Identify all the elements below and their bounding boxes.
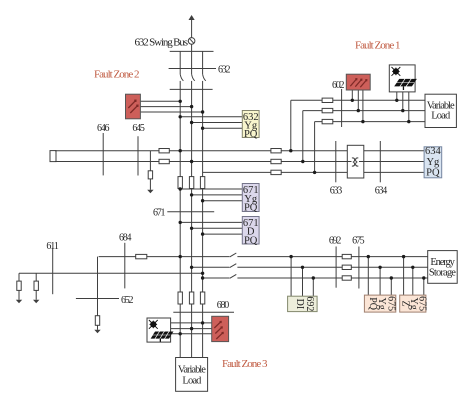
load 611 drop 2 — [35, 273, 37, 281]
svg-text:675: 675 — [352, 235, 365, 246]
svg-text:Energy: Energy — [430, 257, 455, 268]
wire drop to 692DI box A — [290, 257, 292, 297]
node L3 riser — [313, 171, 316, 174]
bus 652 tick bar — [76, 298, 119, 300]
load 645 resistor — [148, 171, 152, 179]
PV unit top right — [389, 65, 417, 92]
sun icon — [392, 67, 401, 76]
bus bar top — [170, 50, 214, 52]
wire feeder phase A vertical — [179, 89, 181, 357]
load box 675 Yg PQ rotated — [364, 295, 396, 312]
bus 680 bar — [173, 311, 234, 313]
wire 692 line 2 — [192, 266, 428, 268]
svg-text:684: 684 — [119, 232, 132, 243]
svg-text:632: 632 — [218, 64, 231, 75]
wire L1 to 634 box — [291, 150, 424, 152]
transformer T1 633-634 — [347, 145, 364, 178]
fuse L1 right — [271, 149, 281, 153]
bus 645 tick — [137, 136, 139, 175]
node 692-3 — [201, 276, 204, 279]
load 645 drop wire — [149, 151, 151, 171]
wire fault1 phase C — [315, 121, 425, 123]
load 652 resistor — [95, 316, 99, 326]
node fault3 top — [201, 321, 204, 324]
swing bus source G1 — [188, 38, 195, 45]
svg-text:PQ: PQ — [244, 129, 258, 140]
svg-text:Load: Load — [431, 111, 451, 122]
wire to 632 load phase A — [180, 116, 242, 118]
wire phase C stub — [202, 51, 204, 68]
fuse 692 A — [342, 254, 351, 258]
wire 611 res1 to ground — [18, 290, 20, 299]
node 675Z drop B — [411, 266, 414, 269]
node 675PQ drop B — [378, 266, 381, 269]
fuse fault1 A — [322, 98, 333, 102]
node L1 riser — [289, 149, 292, 152]
wire PV1 drop B — [402, 92, 404, 111]
wire feeder phase C vertical — [202, 89, 204, 357]
svg-text:633: 633 — [330, 185, 343, 196]
load box 675 Yg Z rotated — [400, 295, 428, 312]
fault box 680 zone 3 — [212, 316, 229, 341]
wire 611 res2 to ground — [35, 290, 37, 299]
wire drop to 675PQ box C — [390, 278, 392, 295]
wire to 671Yg load A — [180, 188, 242, 190]
wire fault602 drop B — [357, 90, 359, 111]
node 671Yg-C — [201, 199, 204, 202]
fuse 692 B — [342, 265, 351, 269]
wire drop to 675PQ box A — [367, 257, 369, 296]
switch line 3 — [229, 274, 237, 280]
bus 602 tick — [341, 89, 343, 127]
wire fault3 phase top — [171, 322, 212, 324]
node 632load-C — [201, 127, 204, 130]
svg-text:680: 680 — [217, 300, 230, 311]
wire fault602 drop A — [351, 90, 353, 100]
wire drop to 692DI box B — [302, 267, 304, 296]
wire to 671D load B — [192, 227, 243, 229]
bus 632 bar — [169, 68, 216, 70]
load 611 resistor 1 — [17, 281, 21, 290]
svg-text:611: 611 — [46, 241, 59, 252]
svg-text:646: 646 — [97, 123, 110, 134]
wire source to bus — [191, 44, 193, 51]
wire 684 to 652 drop — [97, 257, 99, 316]
svg-text:602: 602 — [332, 80, 345, 91]
svg-text:634: 634 — [375, 185, 388, 196]
node 632load-B — [190, 121, 193, 124]
wire phase B stub — [191, 51, 193, 68]
node fault602-B — [357, 109, 360, 112]
energy storage box — [428, 251, 458, 284]
variable load box bottom — [176, 358, 208, 392]
wire 652 res to ground — [97, 325, 99, 330]
load box 671 D PQ — [242, 217, 259, 247]
wire fault2 phase A — [140, 100, 180, 102]
node 671D-B — [190, 227, 193, 230]
node L1-A — [179, 149, 182, 152]
node 675Z drop A — [402, 255, 405, 258]
panel icon — [394, 79, 417, 90]
breaker SW-C — [203, 69, 206, 90]
wire drop to 692DI box C — [312, 278, 314, 296]
svg-text:671: 671 — [153, 207, 166, 218]
svg-text:Fault Zone 2: Fault Zone 2 — [94, 68, 140, 80]
bus 675 tick — [358, 247, 360, 289]
svg-text:PQ: PQ — [244, 235, 258, 246]
node fault602-A — [351, 99, 354, 102]
node PV1-B — [401, 109, 404, 112]
wire 692 line 3 — [203, 277, 428, 279]
fuse feeder A lower — [178, 292, 182, 304]
node fault3 mid — [190, 327, 193, 330]
load box 632 Yg PQ — [242, 111, 259, 141]
fuse fault1 C — [322, 119, 333, 123]
node 671Yg-A — [179, 187, 182, 190]
wire drop to 675Z box B — [412, 267, 414, 295]
fuse feeder C lower — [200, 292, 204, 304]
wire fault3 phase mid — [171, 328, 212, 330]
load 611 resistor 2 — [34, 281, 38, 290]
wire line L2 — [55, 161, 303, 163]
wire fault602 drop C — [362, 90, 364, 122]
wire fault3 phase bot — [171, 333, 212, 335]
wire fault1 phase A — [291, 99, 425, 101]
fuse L3 right — [271, 170, 281, 174]
svg-text:DI: DI — [294, 299, 305, 310]
load box 692 DI rotated — [288, 296, 318, 311]
breaker SW-B — [192, 69, 195, 90]
svg-text:692: 692 — [304, 296, 315, 311]
fault box 602 zone 1 — [346, 74, 370, 90]
source arrow — [189, 15, 195, 38]
svg-text:Load: Load — [182, 375, 202, 386]
wire fault2 phase C — [140, 111, 202, 113]
sun icon — [149, 320, 158, 329]
node 675PQ drop C — [390, 276, 393, 279]
svg-text:Fault Zone 1: Fault Zone 1 — [355, 39, 401, 51]
fuse L2 left — [159, 159, 169, 163]
wire 684 line A — [99, 256, 428, 258]
wire riser to fault1 phase A — [290, 100, 292, 150]
wire fault2 phase B — [140, 106, 191, 108]
svg-text:Yg: Yg — [426, 157, 440, 168]
ground 652 — [94, 330, 100, 334]
node fault2-A — [179, 100, 182, 103]
node fault2-B — [190, 105, 193, 108]
svg-text:PQ: PQ — [426, 168, 440, 179]
node 684A — [179, 255, 182, 258]
bus 634 tick — [379, 141, 381, 182]
wire PV1 drop A — [396, 92, 398, 100]
ground 611-2 — [33, 300, 39, 304]
svg-text:Storage: Storage — [429, 267, 456, 278]
bus 684 tick — [124, 243, 126, 289]
wire to 671Yg load C — [203, 200, 243, 202]
node fault2-C — [201, 110, 204, 113]
wire to 671D load C — [203, 233, 243, 235]
wire riser to fault1 phase C — [314, 122, 316, 173]
bus 671 tick bar — [167, 211, 214, 213]
node 671D-A — [179, 221, 182, 224]
wire drop to 675Z box A — [403, 257, 405, 296]
panel icon — [151, 332, 174, 342]
wire L2 to 634 box — [303, 161, 424, 163]
wire L3 to 634 box — [315, 171, 425, 173]
wire feeder phase B vertical — [191, 89, 193, 357]
wire line L3 — [203, 171, 315, 173]
bus 633 tick — [335, 141, 337, 182]
fuse 684 line — [136, 254, 147, 258]
svg-text:Variable: Variable — [178, 365, 206, 376]
node 671D-C — [201, 232, 204, 235]
node DI drop A — [289, 255, 292, 258]
bus 611 tick — [52, 248, 54, 294]
wire to 632 load phase B — [192, 122, 243, 124]
svg-text:PQ: PQ — [367, 297, 378, 311]
wire riser to fault1 phase B — [302, 111, 304, 162]
fuse feeder B upper — [189, 177, 193, 189]
wire PV1 drop C — [408, 92, 410, 122]
load box 671 Yg PQ — [242, 184, 259, 214]
node 692-2 — [190, 266, 193, 269]
node fault3 bot — [179, 332, 182, 335]
variable load box top — [425, 94, 456, 127]
fuse feeder B lower — [189, 292, 193, 304]
ground 611-1 — [16, 300, 22, 304]
fuse 692 C — [342, 276, 351, 280]
node 632load-A — [179, 115, 182, 118]
svg-text:Z: Z — [400, 301, 411, 307]
fuse feeder C upper — [200, 177, 204, 189]
bus 646 tick — [102, 133, 104, 175]
node L2-B — [190, 160, 193, 163]
wire to 632 load phase C — [203, 127, 243, 129]
wire phase A stub — [179, 51, 181, 68]
node DI drop B — [301, 266, 304, 269]
wire drop to 675Z box C — [423, 278, 425, 295]
wire to 671D load A — [180, 221, 242, 223]
wire load 645 to ground — [149, 179, 151, 190]
load 611 drop 1 — [18, 273, 20, 281]
bus bar below breakers — [170, 88, 213, 90]
node 675Z drop C — [422, 276, 425, 279]
breaker SW-A — [180, 69, 183, 90]
node DI drop C — [312, 276, 315, 279]
switch line A — [229, 253, 237, 259]
node 611B end — [201, 272, 204, 275]
svg-text:645: 645 — [132, 123, 145, 134]
wire drop to 675PQ box B — [379, 267, 381, 295]
fuse feeder A upper — [178, 177, 182, 189]
wire 611 line B — [19, 272, 203, 274]
load box 634 Yg PQ — [424, 146, 442, 179]
node PV1-C — [407, 120, 410, 123]
fault box zone 2 — [126, 94, 141, 119]
svg-text:Fault Zone 3: Fault Zone 3 — [222, 358, 268, 370]
bus 692 tick — [335, 247, 337, 288]
svg-text:632 Swing Bus: 632 Swing Bus — [135, 37, 189, 49]
node L2 riser — [301, 160, 304, 163]
svg-text:692: 692 — [329, 235, 342, 246]
wire line L1 (632-645-646) — [55, 150, 291, 152]
fuse L2 right — [271, 159, 281, 163]
svg-text:652: 652 — [121, 295, 134, 306]
node PV1-A — [395, 99, 398, 102]
ground 645 — [147, 190, 153, 193]
node fault602-C — [361, 120, 364, 123]
node 675PQ drop A — [367, 255, 370, 258]
PV unit bottom — [147, 318, 174, 342]
line terminator 646 end — [50, 151, 56, 162]
wire fault1 phase B — [303, 110, 425, 112]
svg-text:634: 634 — [425, 146, 442, 157]
switch line 2 — [229, 264, 237, 270]
fuse fault1 B — [322, 108, 333, 112]
fuse L1 left — [159, 149, 169, 153]
svg-text:PQ: PQ — [244, 203, 258, 214]
wire to 671Yg load B — [192, 194, 243, 196]
node 671Yg-B — [190, 193, 193, 196]
